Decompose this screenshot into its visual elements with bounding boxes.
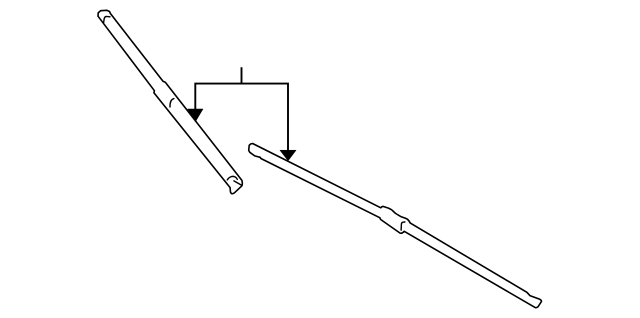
wiper blade B1 (left, upper rod) outline bbox=[98, 10, 242, 193]
blade B1 bottom cap inner rim arc bbox=[227, 176, 237, 180]
blade B1 bottom cap crease line bbox=[234, 181, 241, 185]
arrowhead pointing to blade B1 bbox=[188, 109, 203, 122]
blade B1 top cap inner rim arc bbox=[104, 16, 110, 22]
blade B2 center collar rim (hook arc + stem line) bbox=[401, 222, 405, 230]
callout bracket leader lines (label 1) bbox=[195, 68, 288, 151]
wiper blade B2 (right, lower rod) outline bbox=[249, 144, 542, 308]
arrowhead pointing to blade B2 bbox=[280, 150, 296, 161]
blade B1 center collar rim arc bbox=[170, 99, 174, 107]
